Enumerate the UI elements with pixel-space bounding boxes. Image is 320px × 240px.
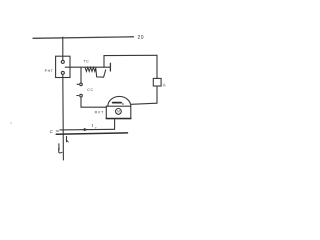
svg-text:M: M xyxy=(117,110,120,114)
resistor TC (heater zigzag) xyxy=(85,67,96,71)
capacitor C long plate xyxy=(56,133,127,134)
svg-text:20: 20 xyxy=(138,35,145,41)
phototube anode circle xyxy=(61,60,64,63)
wire: bus down to phototube PHT xyxy=(62,37,64,60)
rotation arrow (hook) xyxy=(58,144,60,150)
terminal bar (heater right end) xyxy=(109,63,111,71)
capacitor C plate fuzz tip (upper) xyxy=(56,130,58,132)
bus line (top supply line) xyxy=(33,37,134,39)
rotation arrow head xyxy=(58,149,60,151)
svg-text:C: C xyxy=(50,129,54,134)
wire: drop from top-right branch to heater xyxy=(103,56,105,68)
junction stub below plate xyxy=(66,136,68,141)
phototube PHT box xyxy=(56,56,70,77)
svg-text:TC: TC xyxy=(83,59,89,63)
wire: branch down to CC upper terminal xyxy=(80,67,82,83)
svg-text:RVT: RVT xyxy=(95,110,105,114)
wire: PHT cathode down through box xyxy=(62,74,65,160)
wire: PHT output to heater TC xyxy=(65,66,110,68)
terminal CC lower xyxy=(80,94,83,97)
wire: right vertical to meter A xyxy=(156,55,158,78)
motor RVT dome xyxy=(108,96,131,106)
wire: motor bottom down xyxy=(114,119,116,130)
wire: top-right branch xyxy=(104,54,157,56)
wire: right vertical to motor dome xyxy=(131,103,157,104)
svg-text:t: t xyxy=(92,123,94,128)
svg-text:PHT: PHT xyxy=(45,69,54,73)
tick at CC upper xyxy=(77,83,79,85)
motor brush bar xyxy=(113,102,122,104)
wire: CC lower terminal to motor RVT xyxy=(81,97,106,107)
svg-text:v: v xyxy=(95,125,97,129)
motor RVT box bottom edge (heavy) xyxy=(106,118,131,120)
current arrow on return wire xyxy=(84,128,88,131)
speck (scan noise) xyxy=(10,122,11,123)
stub flick xyxy=(67,140,69,142)
motor brush dot xyxy=(122,103,123,104)
svg-text:CC: CC xyxy=(87,88,93,92)
terminal CC upper xyxy=(80,83,83,86)
phototube cathode circle xyxy=(61,71,64,74)
motor RVT box xyxy=(106,106,131,118)
tick at CC lower xyxy=(77,95,79,97)
meter A box xyxy=(153,78,161,86)
wire: motor return to main vertical node xyxy=(60,128,115,131)
thermocouple junction loop xyxy=(96,69,106,77)
rotation arrow hook tail xyxy=(59,149,62,153)
svg-text:A: A xyxy=(163,82,166,87)
motor M circle xyxy=(116,109,122,115)
wire: meter A down xyxy=(156,86,158,103)
